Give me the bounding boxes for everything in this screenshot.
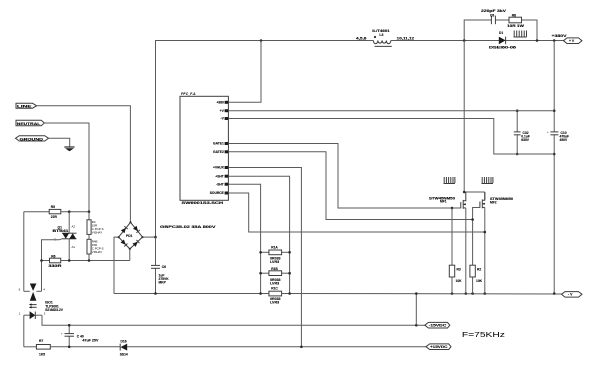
svg-text:R1C: R1C [271, 287, 278, 291]
svg-text:PFC_F.A: PFC_F.A [181, 92, 196, 96]
svg-text:- V: - V [568, 293, 573, 297]
wire top rail +rect bus [156, 41, 374, 238]
LED diode [24, 314, 30, 316]
wire SOURCE route [228, 193, 484, 232]
svg-text:+: + [61, 332, 63, 336]
svg-text:MF1: MF1 [440, 200, 447, 204]
wire triac gate to opto pin4 [42, 239, 63, 291]
inductor L3 coil [373, 41, 390, 44]
wire LINE to bridge top [37, 106, 131, 223]
svg-text:R8: R8 [512, 13, 516, 17]
wire bridge ac2 [129, 249, 131, 261]
wire -SHT route [228, 184, 260, 293]
capacitor C32 [516, 111, 518, 132]
wire triac A1 [68, 239, 70, 261]
connector -V [562, 292, 583, 298]
wire MF2 gate leg [473, 208, 480, 266]
wire NEUTRAL down to R4 chain [44, 123, 89, 212]
svg-text:R1B: R1B [271, 267, 278, 271]
wire snubber loop [464, 20, 491, 41]
svg-text:R7: R7 [39, 339, 43, 343]
svg-text:R3: R3 [457, 268, 461, 272]
svg-text:MF2: MF2 [490, 200, 497, 204]
wire GATE1 route [228, 144, 460, 209]
svg-text:LVR3: LVR3 [270, 301, 279, 305]
resistor R3 [451, 208, 453, 265]
svg-text:GATE1: GATE1 [213, 142, 224, 146]
svg-text:-15VDC: -15VDC [429, 324, 447, 328]
svg-text:GROUND: GROUND [20, 137, 44, 141]
svg-text:GATE2: GATE2 [213, 150, 224, 154]
svg-text:330R: 330R [48, 264, 62, 268]
wire +VAUX route [228, 168, 301, 347]
shunt resistor R1B [261, 272, 269, 274]
svg-text:GBPC35-02 35A 800V: GBPC35-02 35A 800V [160, 225, 217, 229]
transistor MF1 [461, 192, 466, 209]
wire output right rail [553, 41, 555, 132]
svg-text:+VAUX: +VAUX [213, 166, 225, 170]
resistor R6 [42, 260, 50, 262]
svg-text:22R: 22R [51, 215, 58, 219]
svg-text:-SHT: -SHT [216, 182, 224, 186]
wire -15 riser to source rail [415, 294, 417, 326]
svg-text:R5: R5 [51, 205, 55, 209]
block pin squares [225, 101, 229, 195]
svg-text:DSEI60-06: DSEI60-06 [489, 45, 516, 49]
resistor R4 [88, 212, 90, 220]
wire MF2 source down [484, 207, 486, 293]
svg-text:+SHT: +SHT [215, 174, 224, 178]
wire triac A2 [68, 212, 70, 234]
shunt resistor R1A [261, 251, 269, 253]
svg-text:LVR3: LVR3 [270, 260, 279, 264]
svg-text:+ V: + V [569, 39, 575, 43]
wire MF1 source down [465, 208, 467, 294]
svg-text:NEUTRAL: NEUTRAL [17, 122, 41, 126]
resistor R2 [470, 265, 475, 277]
block pin labels [210, 100, 225, 195]
wire bridge minus down [114, 237, 119, 293]
junction dots right caps [516, 109, 519, 112]
diode top-left [121, 226, 128, 233]
resistor R7 [24, 346, 37, 348]
optotriac ISO1 [24, 284, 42, 320]
svg-text:+380: +380 [216, 100, 224, 104]
svg-text:LVR3: LVR3 [270, 281, 279, 285]
svg-text:L3: L3 [379, 33, 383, 37]
wire pin +380 riser [228, 41, 261, 103]
heatsink for MF1 [444, 177, 456, 184]
svg-text:A1: A1 [72, 245, 76, 249]
svg-text:+380V: +380V [552, 34, 568, 38]
wire +SHT route [228, 176, 289, 293]
triac side triangles [30, 284, 37, 291]
capacitor C10 electrolytic [550, 132, 558, 135]
svg-text:PD1: PD1 [126, 234, 133, 238]
svg-text:VISHAY: VISHAY [92, 231, 102, 235]
pin 4 stub [36, 290, 41, 292]
svg-text:LINE: LINE [17, 105, 33, 109]
capacitor C6 [155, 237, 157, 265]
capacitor C40 [68, 325, 70, 333]
resistor R8 [509, 17, 522, 23]
svg-text:R6: R6 [51, 254, 55, 258]
svg-text:10,11,12: 10,11,12 [397, 37, 415, 41]
wire GROUND to earth [49, 138, 70, 147]
MOSFET drain rail [463, 41, 465, 193]
svg-text:VISHAY: VISHAY [92, 250, 102, 254]
connector NEUTRAL [16, 120, 44, 126]
pin 6 stub [24, 290, 30, 292]
diode D16 [120, 344, 127, 351]
hierarchical block PFC_F.A [180, 96, 228, 200]
diode bottom-left [121, 240, 128, 247]
light arrows [30, 304, 36, 306]
wire opto pin1 down [23, 315, 25, 347]
wire +15 rail to connector [301, 346, 426, 348]
svg-text:+15VDC: +15VDC [430, 345, 448, 349]
connector +V [564, 38, 583, 44]
svg-text:4,5,6: 4,5,6 [356, 37, 367, 41]
svg-text:SOURCE: SOURCE [210, 191, 225, 195]
svg-text:10K: 10K [476, 279, 483, 283]
svg-text:10K: 10K [456, 279, 463, 283]
wire opto pin2 to -15 rail [42, 315, 425, 325]
resistor R4B [88, 234, 90, 239]
connector -15VDC [425, 322, 450, 328]
inductor polarity dot [374, 36, 376, 38]
svg-text:MKP: MKP [159, 281, 167, 285]
bridge rectifier PD1 [119, 222, 143, 249]
svg-text:10R 1W: 10R 1W [507, 24, 525, 28]
triac Q1 [62, 233, 77, 239]
resistor R5 [24, 211, 49, 213]
wire rail inductor to +V [391, 40, 564, 42]
wire R5 left leg down to opto pin6 [23, 212, 25, 292]
svg-text:C6: C6 [162, 265, 166, 269]
svg-text:D16: D16 [121, 339, 127, 343]
capacitor C8 [491, 16, 495, 25]
wire pin +V to output rail [228, 110, 554, 112]
connector LINE [16, 103, 37, 108]
svg-text:S21MD3.2V: S21MD3.2V [45, 308, 64, 312]
earth ground symbol [64, 147, 74, 151]
svg-text:1K5: 1K5 [39, 353, 45, 357]
svg-text:+: + [547, 130, 549, 134]
svg-text:SS14: SS14 [120, 353, 128, 357]
bottom return rail [114, 293, 269, 295]
shunt resistor R1C [269, 291, 282, 296]
svg-text:A2: A2 [72, 225, 76, 229]
wire pin -V to output minus rail [228, 119, 554, 155]
wire GATE2 route [228, 152, 472, 220]
connector +15VDC [426, 344, 451, 350]
svg-text:R1A: R1A [271, 246, 278, 250]
svg-text:630V: 630V [521, 138, 530, 142]
diode D1 [499, 37, 506, 45]
heatsink for MF2 [482, 177, 494, 184]
svg-text:SW6001S3.SCH: SW6001S3.SCH [182, 201, 224, 205]
node junction dots on top rail [260, 39, 263, 42]
svg-text:BTB41: BTB41 [53, 229, 69, 233]
svg-text:F=75KHz: F=75KHz [462, 330, 506, 339]
inductor L3 core bar [375, 45, 392, 47]
diode bottom-right [133, 240, 140, 247]
connector GROUND [16, 136, 49, 142]
heatsink for D1 [514, 31, 527, 38]
svg-text:47uF 25V: 47uF 25V [82, 338, 99, 342]
transistor MF2 [480, 192, 485, 208]
svg-text:450V: 450V [560, 138, 569, 142]
svg-text:R2: R2 [477, 268, 481, 272]
diode top-right [133, 226, 140, 233]
wire bridge plus to rail [143, 236, 156, 238]
svg-text:C8: C8 [490, 13, 494, 17]
svg-text:D1: D1 [499, 31, 503, 35]
